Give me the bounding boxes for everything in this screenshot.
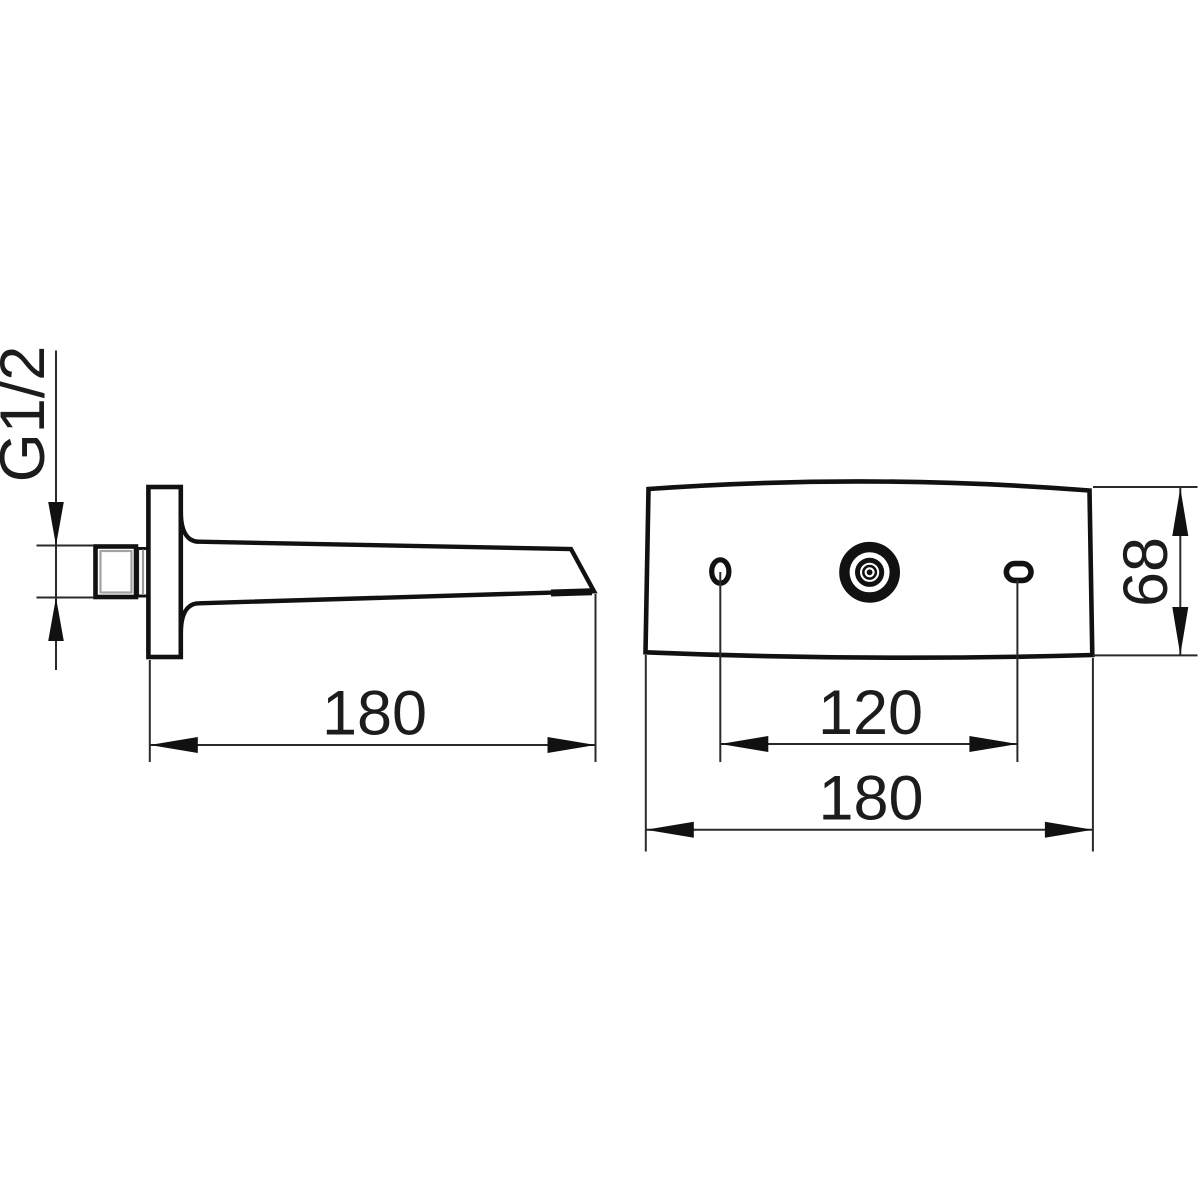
wall plate front view	[646, 481, 1093, 657]
dimension 180 front view: dimension line	[646, 829, 1093, 831]
left screw hole	[712, 560, 729, 583]
spout body side view	[181, 512, 594, 633]
svg-text:68: 68	[1111, 537, 1181, 607]
dimension 180 left view: right arrow	[548, 737, 596, 753]
dimension 180 front view: extension line left	[645, 655, 647, 852]
dimension G1/2: lower arrow	[48, 598, 64, 642]
dimension 68: bottom arrow	[1172, 607, 1188, 655]
dimension G1/2: upper arrow	[48, 502, 64, 546]
dimension 120: right arrow	[969, 736, 1017, 752]
right screw hole	[1006, 564, 1031, 581]
wall plate side view	[148, 487, 180, 657]
dimension 120: dimension line	[720, 743, 1017, 745]
thread collar	[136, 549, 148, 597]
svg-text:180: 180	[818, 764, 923, 834]
dimension 180 front view: right arrow	[1045, 822, 1093, 838]
svg-text:180: 180	[322, 679, 427, 749]
dimension 180 left view: left arrow	[150, 737, 198, 753]
dimension 68: top arrow	[1172, 488, 1188, 536]
svg-text:120: 120	[818, 678, 923, 748]
sensor center dot	[867, 569, 873, 575]
aerator slot at spout tip	[551, 592, 592, 593]
sensor outer ring	[844, 547, 894, 597]
dimension 120: leader line from left hole	[719, 572, 721, 762]
sensor inner ring	[863, 566, 876, 579]
dimension G1/2: extension lines	[37, 545, 95, 547]
thread minor-diameter lines	[101, 551, 132, 593]
threaded nipple G1/2	[96, 547, 137, 598]
dimension 68: extension line bottom	[1093, 654, 1198, 656]
dimension G1/2: dimension line	[55, 351, 57, 671]
svg-text:G1/2: G1/2	[0, 346, 58, 483]
sensor middle ring	[858, 560, 882, 584]
dimension 180 left view: extension line left	[149, 660, 151, 762]
dimension 120: leader line from right hole	[1016, 580, 1018, 762]
dimension 68: dimension line	[1179, 488, 1181, 655]
dimension 180 front view: left arrow	[646, 822, 694, 838]
dimension 120: left arrow	[720, 736, 768, 752]
dimension 180 left view: dimension line	[150, 744, 596, 746]
dimension 180 front view: extension line right	[1092, 658, 1094, 852]
dimension 180 left view: extension line right	[595, 594, 597, 762]
dimension 68: extension line top	[1093, 486, 1198, 488]
